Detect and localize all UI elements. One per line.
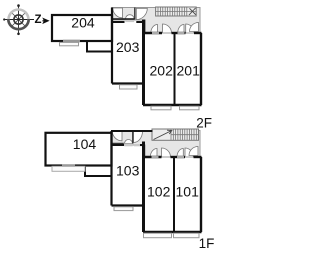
- svg-text:103: 103: [116, 163, 140, 179]
- svg-text:203: 203: [116, 39, 140, 55]
- svg-text:1F: 1F: [199, 236, 215, 251]
- svg-text:Z: Z: [35, 14, 42, 26]
- svg-text:102: 102: [147, 184, 171, 200]
- svg-text:201: 201: [177, 63, 201, 79]
- svg-text:101: 101: [176, 184, 200, 200]
- svg-text:2F: 2F: [196, 115, 212, 130]
- svg-text:204: 204: [71, 15, 95, 31]
- svg-text:104: 104: [73, 136, 97, 152]
- svg-text:202: 202: [150, 63, 174, 79]
